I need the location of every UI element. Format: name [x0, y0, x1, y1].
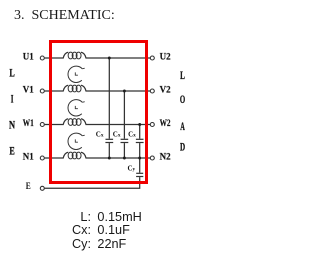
svg-text:E: E — [26, 182, 31, 192]
svg-text:L: L — [180, 70, 185, 82]
svg-text:N: N — [9, 120, 16, 132]
svg-text:U1: U1 — [23, 53, 34, 63]
svg-text:D: D — [180, 142, 185, 154]
svg-text:A: A — [180, 121, 185, 133]
svg-text:W2: W2 — [160, 119, 171, 129]
svg-text:N2: N2 — [160, 153, 171, 163]
svg-text:I: I — [11, 94, 14, 106]
svg-text:O: O — [180, 94, 185, 106]
svg-text:L: L — [9, 67, 15, 79]
svg-text:W1: W1 — [23, 119, 34, 129]
svg-text:V1: V1 — [23, 86, 34, 96]
svg-text:V2: V2 — [160, 86, 171, 96]
svg-text:U2: U2 — [160, 53, 171, 63]
svg-text:N1: N1 — [23, 153, 34, 163]
svg-text:E: E — [9, 146, 15, 158]
